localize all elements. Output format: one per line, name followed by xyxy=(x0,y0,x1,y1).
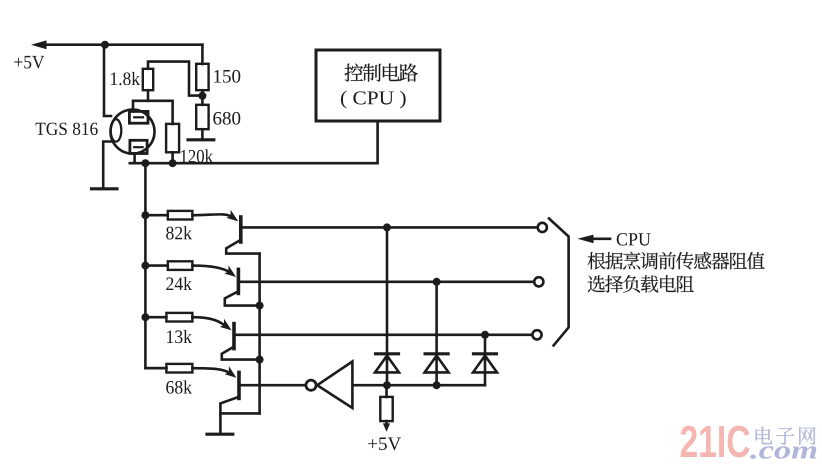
wire Q1 collector row 1 xyxy=(241,226,537,229)
label 1.8k xyxy=(111,72,140,85)
junction bus / D2 xyxy=(433,381,441,389)
node +5V supply rail (top) xyxy=(31,40,202,49)
label +5V (bottom) xyxy=(368,438,401,451)
wire Q3 emitter to common rail xyxy=(222,347,260,360)
arrow from CPU note to switch xyxy=(578,235,611,244)
wire common emitter rail xyxy=(258,254,261,414)
transistor Q1 base bar xyxy=(239,217,243,242)
diode D1 xyxy=(375,354,399,373)
wire 24k to transistor Q2 base (arrow) xyxy=(192,265,238,280)
resistor 82k xyxy=(145,211,192,220)
junction common rail / Q3 emitter xyxy=(256,356,264,364)
junction row 2 / diode D2 xyxy=(433,278,441,286)
junction node B / ladder bus xyxy=(141,159,149,167)
transistor Q2 base bar xyxy=(237,269,241,293)
switch S1 contact xyxy=(538,223,547,232)
junction row 1 / diode D1 xyxy=(383,223,391,231)
switch S2 contact xyxy=(534,277,543,286)
resistor R3 680 xyxy=(196,105,208,129)
logo 21IC (watermark) xyxy=(681,426,750,458)
junction ladder bus / 24k xyxy=(141,262,149,270)
TGS816 electrode (top plate) xyxy=(129,111,148,123)
ground (680) xyxy=(188,138,214,141)
wire Q4 emitter to ground xyxy=(220,397,239,434)
wire junction on +5V rail xyxy=(101,41,109,49)
wire common rail join to Q4 emitter xyxy=(220,412,259,415)
wire D1 cathode up to row 1 xyxy=(386,227,389,385)
wire pull-up leads xyxy=(385,385,388,426)
label +5V (top left) xyxy=(14,56,44,69)
label 13k xyxy=(167,330,192,343)
junction 150/680/1.8k xyxy=(198,92,206,100)
diode D2 xyxy=(425,354,449,373)
label 82k xyxy=(166,226,192,239)
wire 1.8k top to 150/680 junction xyxy=(148,62,202,96)
switch S3 contact xyxy=(532,330,541,339)
resistor R2 150 xyxy=(196,64,208,90)
node A wire: sensor top electrode / 1.8k / 120k top xyxy=(133,101,173,124)
label CPU (annotation) xyxy=(617,233,651,245)
wire 13k to transistor Q3 base (arrow) xyxy=(192,317,234,334)
junction row 3 / diode D3 xyxy=(481,331,489,339)
wire 68k to transistor Q4 base (arrow) xyxy=(192,366,239,381)
resistor 13k xyxy=(145,313,192,322)
wire 1.8k bottom to node A xyxy=(147,90,150,101)
wire D3 cathode up to row 3 xyxy=(484,335,487,385)
label TGS 816 xyxy=(36,123,98,135)
resistor 24k xyxy=(145,261,192,270)
wire Q2 collector row 2 xyxy=(238,280,534,283)
label 68k xyxy=(166,380,192,393)
diode D3 xyxy=(473,354,497,373)
label 680 xyxy=(213,112,240,125)
wire junction to sensor heater pin 1 xyxy=(104,45,111,116)
ground (emitter rail) xyxy=(207,433,233,436)
label 150 xyxy=(214,70,240,83)
control circuit box U1 (CPU) xyxy=(316,50,440,121)
junction common rail / Q2 emitter xyxy=(256,302,264,310)
junction ladder bus / 13k xyxy=(141,313,149,321)
gas sensor TGS 816 body xyxy=(111,110,155,154)
wire +5V rail down to 150 xyxy=(201,45,204,64)
resistor R4 120k xyxy=(166,124,179,152)
junction ladder bus / 82k xyxy=(141,211,149,219)
switch wiper bar xyxy=(549,219,569,346)
wire 680 leads xyxy=(201,96,204,140)
wire Q1 emitter to common rail xyxy=(226,240,259,254)
wire ladder bus (node B down left side) xyxy=(145,163,166,368)
transistor Q4 base bar xyxy=(237,372,241,398)
logo .com (watermark) xyxy=(750,446,816,459)
wire 150 bottom lead xyxy=(201,90,204,95)
note text line 1 xyxy=(588,252,765,270)
label 24k xyxy=(166,277,192,290)
wire 120k bottom lead xyxy=(171,152,174,163)
wire Q3 collector row 3 xyxy=(234,333,532,336)
note text line 2 xyxy=(588,275,694,293)
junction node B / 120k xyxy=(169,159,177,167)
wire sensor heater pin 2 to ground xyxy=(103,142,113,189)
wire 82k to transistor Q1 base (arrow) xyxy=(192,210,241,225)
junction bus / D1 / pull-up xyxy=(383,381,391,389)
resistor 68k xyxy=(145,364,192,373)
resistor R5 pull-up xyxy=(380,397,392,421)
inverter U2 xyxy=(306,362,353,409)
wire diode-AND bus xyxy=(352,384,485,387)
resistor R1 1.8k xyxy=(143,69,153,90)
transistor Q3 base bar xyxy=(232,324,236,349)
wire Q2 emitter to common rail xyxy=(225,291,260,305)
TGS816 electrode (bottom plate) xyxy=(130,140,147,153)
wire Q4 collector row 4 xyxy=(239,384,305,387)
node +5V (bottom, arrow) xyxy=(383,423,390,431)
ground (sensor heater) xyxy=(92,187,118,190)
wire D2 cathode up to row 2 xyxy=(435,282,438,385)
node B wire: sensor bottom electrode / 120k bottom / CPU sense line xyxy=(130,122,378,164)
label 120k xyxy=(181,149,213,162)
logo dianziwang (watermark) xyxy=(756,426,816,444)
